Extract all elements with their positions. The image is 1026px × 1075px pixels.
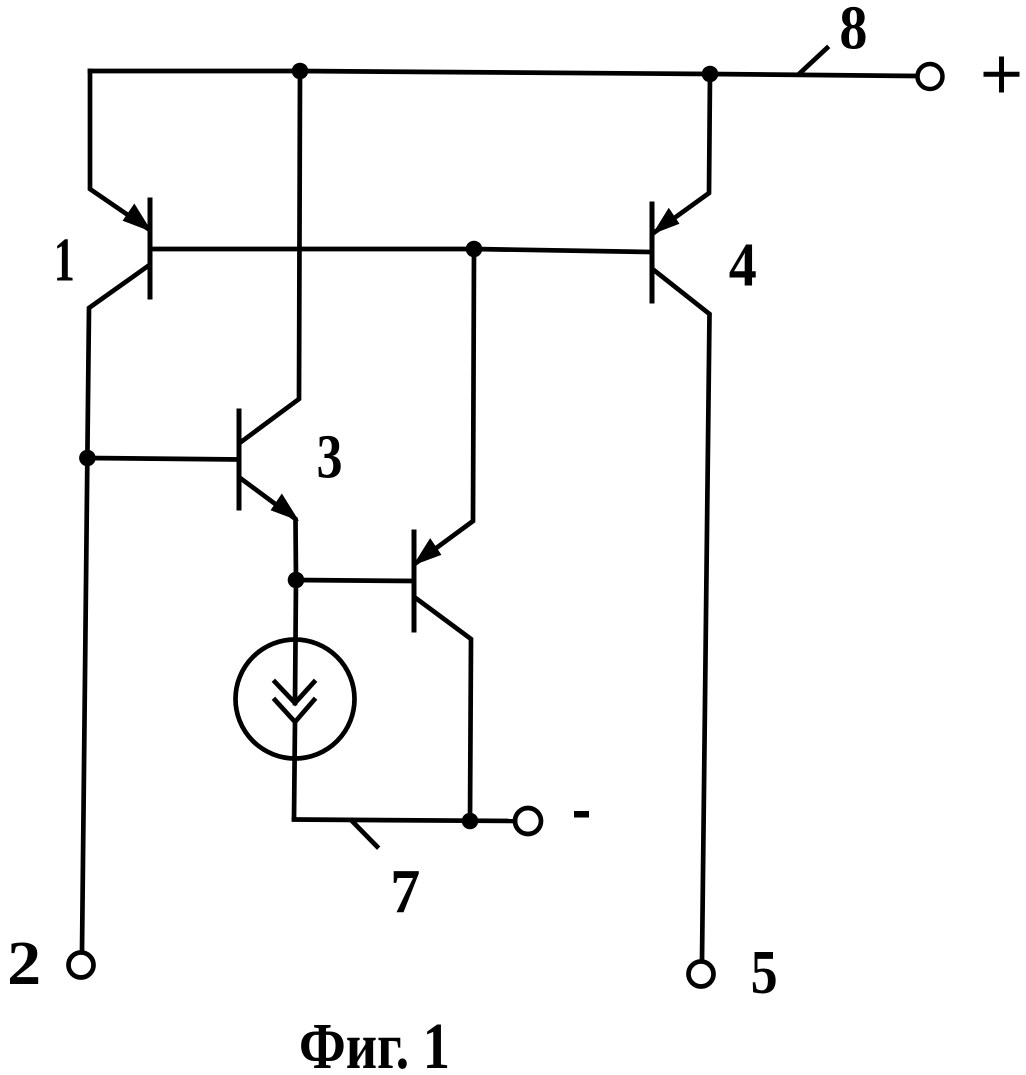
wire out of current source [294,722,295,819]
terminal 8 circle [918,64,943,89]
svg-text:8: 8 [839,0,867,63]
current source chevron 1 [275,682,314,703]
transistor Q6 arrowhead (emitter, PNP) [416,540,440,563]
svg-text:7: 7 [390,858,420,926]
node junction dot bottom rail [462,813,479,830]
wire transistor Q3 emitter down [242,479,297,580]
svg-text:2: 2 [7,930,41,998]
node junction dot on rail right [702,66,719,83]
wire into current source [295,580,296,703]
svg-text:Фиг. 1: Фиг. 1 [299,1010,450,1075]
transistor Q4 base bar [650,204,655,301]
terminal 5 circle [689,962,714,987]
plus sign [986,59,1017,90]
tick pointer to label 8 [799,48,827,74]
current source I7 circle [236,640,355,759]
wire base rail Q1 to Q4 [150,249,652,252]
current source chevron 2 [275,700,314,722]
node junction dot on left vertical [79,450,96,467]
svg-text:4: 4 [729,232,757,300]
tick pointer to label 7 [352,821,377,847]
terminal 2 circle [69,953,94,978]
transistor Q1 arrowhead (emitter, PNP) [125,206,150,230]
transistor Q4 arrowhead (emitter, PNP) [655,210,678,232]
wire transistor Q4 collector down to terminal 5 [655,271,710,960]
wire transistor1 emitter lead from rail [90,71,149,230]
transistor Q6 base bar [412,532,417,630]
minus sign [574,811,589,818]
wire transistor Q6 base [296,580,414,581]
node junction dot on rail left [292,63,309,80]
svg-text:1: 1 [54,226,75,294]
svg-text:5: 5 [751,939,778,1007]
transistor Q3 base bar [237,411,242,508]
terminal 7 circle (minus) [515,808,541,834]
node junction dot base rail [466,241,483,258]
wire transistor Q3 base [87,458,239,460]
wire transistor Q1 collector down to terminal 2 [82,266,148,951]
wire transistor Q3 collector up to rail [241,71,300,442]
transistor Q1 base bar [148,200,153,297]
wire transistor Q6 emitter from base rail node [416,249,474,563]
wire transistor Q4 emitter lead from rail [655,74,710,232]
wire top supply rail [90,71,916,76]
transistor Q3 arrowhead (emitter, NPN) [273,496,297,519]
svg-text:3: 3 [317,424,343,492]
node junction dot emitter Q3 [288,572,305,589]
wire transistor Q6 collector down [417,599,471,821]
wire bottom negative rail [294,820,515,822]
